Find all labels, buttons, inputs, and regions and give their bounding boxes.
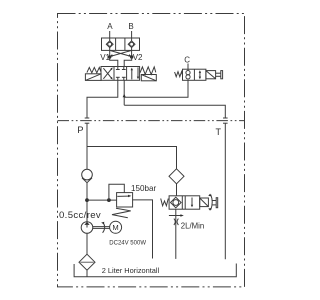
suction filter [79, 254, 95, 270]
left cell crossed arrows [103, 68, 112, 79]
wire T port down with arrow [123, 80, 125, 105]
rotation arrow [103, 222, 105, 233]
node pump outlet junction [85, 198, 89, 202]
wire A to valve port (jog) [110, 57, 118, 67]
svg-text:P: P [77, 124, 83, 135]
svg-text:V1: V1 [100, 53, 110, 62]
wire pump suction [86, 233, 88, 254]
wire B port [131, 31, 133, 41]
valve C body (2/2 poppet valve) [183, 69, 206, 80]
tank outline [74, 264, 236, 277]
right spring [140, 67, 156, 75]
svg-text:C: C [184, 55, 190, 64]
wire P port down [87, 80, 118, 118]
svg-text:DC24V 500W: DC24V 500W [109, 241, 146, 247]
center cell closed ports [116, 67, 126, 81]
flow valve down arrow [191, 198, 193, 207]
wire relief outlet to tank [132, 200, 152, 259]
svg-text:M: M [112, 223, 118, 232]
svg-text:V2: V2 [133, 53, 143, 62]
svg-text:2 Liter Horizontall: 2 Liter Horizontall [102, 266, 160, 275]
pump P1 [81, 222, 93, 234]
wire C port [187, 64, 189, 71]
right solenoid L2 [141, 75, 156, 81]
motor M1 [110, 221, 122, 233]
throttle [174, 219, 175, 225]
flow valve actuator [200, 198, 209, 207]
check valve diamond (bypass) [169, 169, 184, 184]
node P crossing [85, 117, 90, 119]
flow arrow [169, 215, 182, 217]
wire to relief valve [87, 199, 117, 201]
dual pilot-operated check valve block [102, 38, 140, 50]
left solenoid L1 [85, 74, 101, 81]
wire B to valve port (jog) [124, 57, 132, 67]
svg-text:2L/Min: 2L/Min [181, 222, 204, 231]
wire flow valve to tank [175, 209, 177, 259]
shaft pump-motor [93, 226, 110, 228]
svg-text:A: A [107, 22, 113, 31]
relief valve body [117, 193, 133, 207]
right cell parallel arrows [131, 69, 133, 80]
svg-text:150bar: 150bar [131, 184, 157, 193]
wire T to right [124, 105, 225, 118]
flow control valve body [169, 196, 200, 209]
node T crossing [223, 117, 228, 119]
check valve (pump outlet) [82, 169, 93, 180]
wire branch to flow valve [87, 147, 177, 169]
node V2 junction [130, 55, 133, 58]
svg-text:0.5cc/rev: 0.5cc/rev [59, 210, 101, 221]
svg-text:T: T [216, 127, 222, 137]
valve C spring [175, 72, 183, 77]
wire check valve to junction [86, 183, 88, 222]
wire A port [109, 31, 111, 41]
left spring [87, 67, 101, 72]
svg-text:B: B [128, 22, 133, 31]
internal boundary line (dash-dot through P and T) [58, 120, 245, 122]
flow control valve W spring [161, 199, 169, 206]
valve C double arrow [199, 72, 201, 79]
wire filter to tank [86, 270, 88, 277]
valve C manual actuator [206, 71, 216, 79]
pilot cross lines V1/V2 [110, 48, 132, 57]
node pilot junction [107, 198, 111, 202]
enclosure border (dash-dot) [58, 14, 245, 287]
relief valve spring [112, 208, 131, 218]
node V1 junction [108, 55, 111, 58]
wire diamond to flow valve [176, 184, 178, 196]
wire C branch [124, 80, 188, 97]
4/3 solenoid directional valve body [101, 67, 140, 81]
wire relief pilot [109, 184, 124, 200]
wire P down to pump [86, 123, 88, 169]
wire T down to tank [224, 123, 226, 259]
